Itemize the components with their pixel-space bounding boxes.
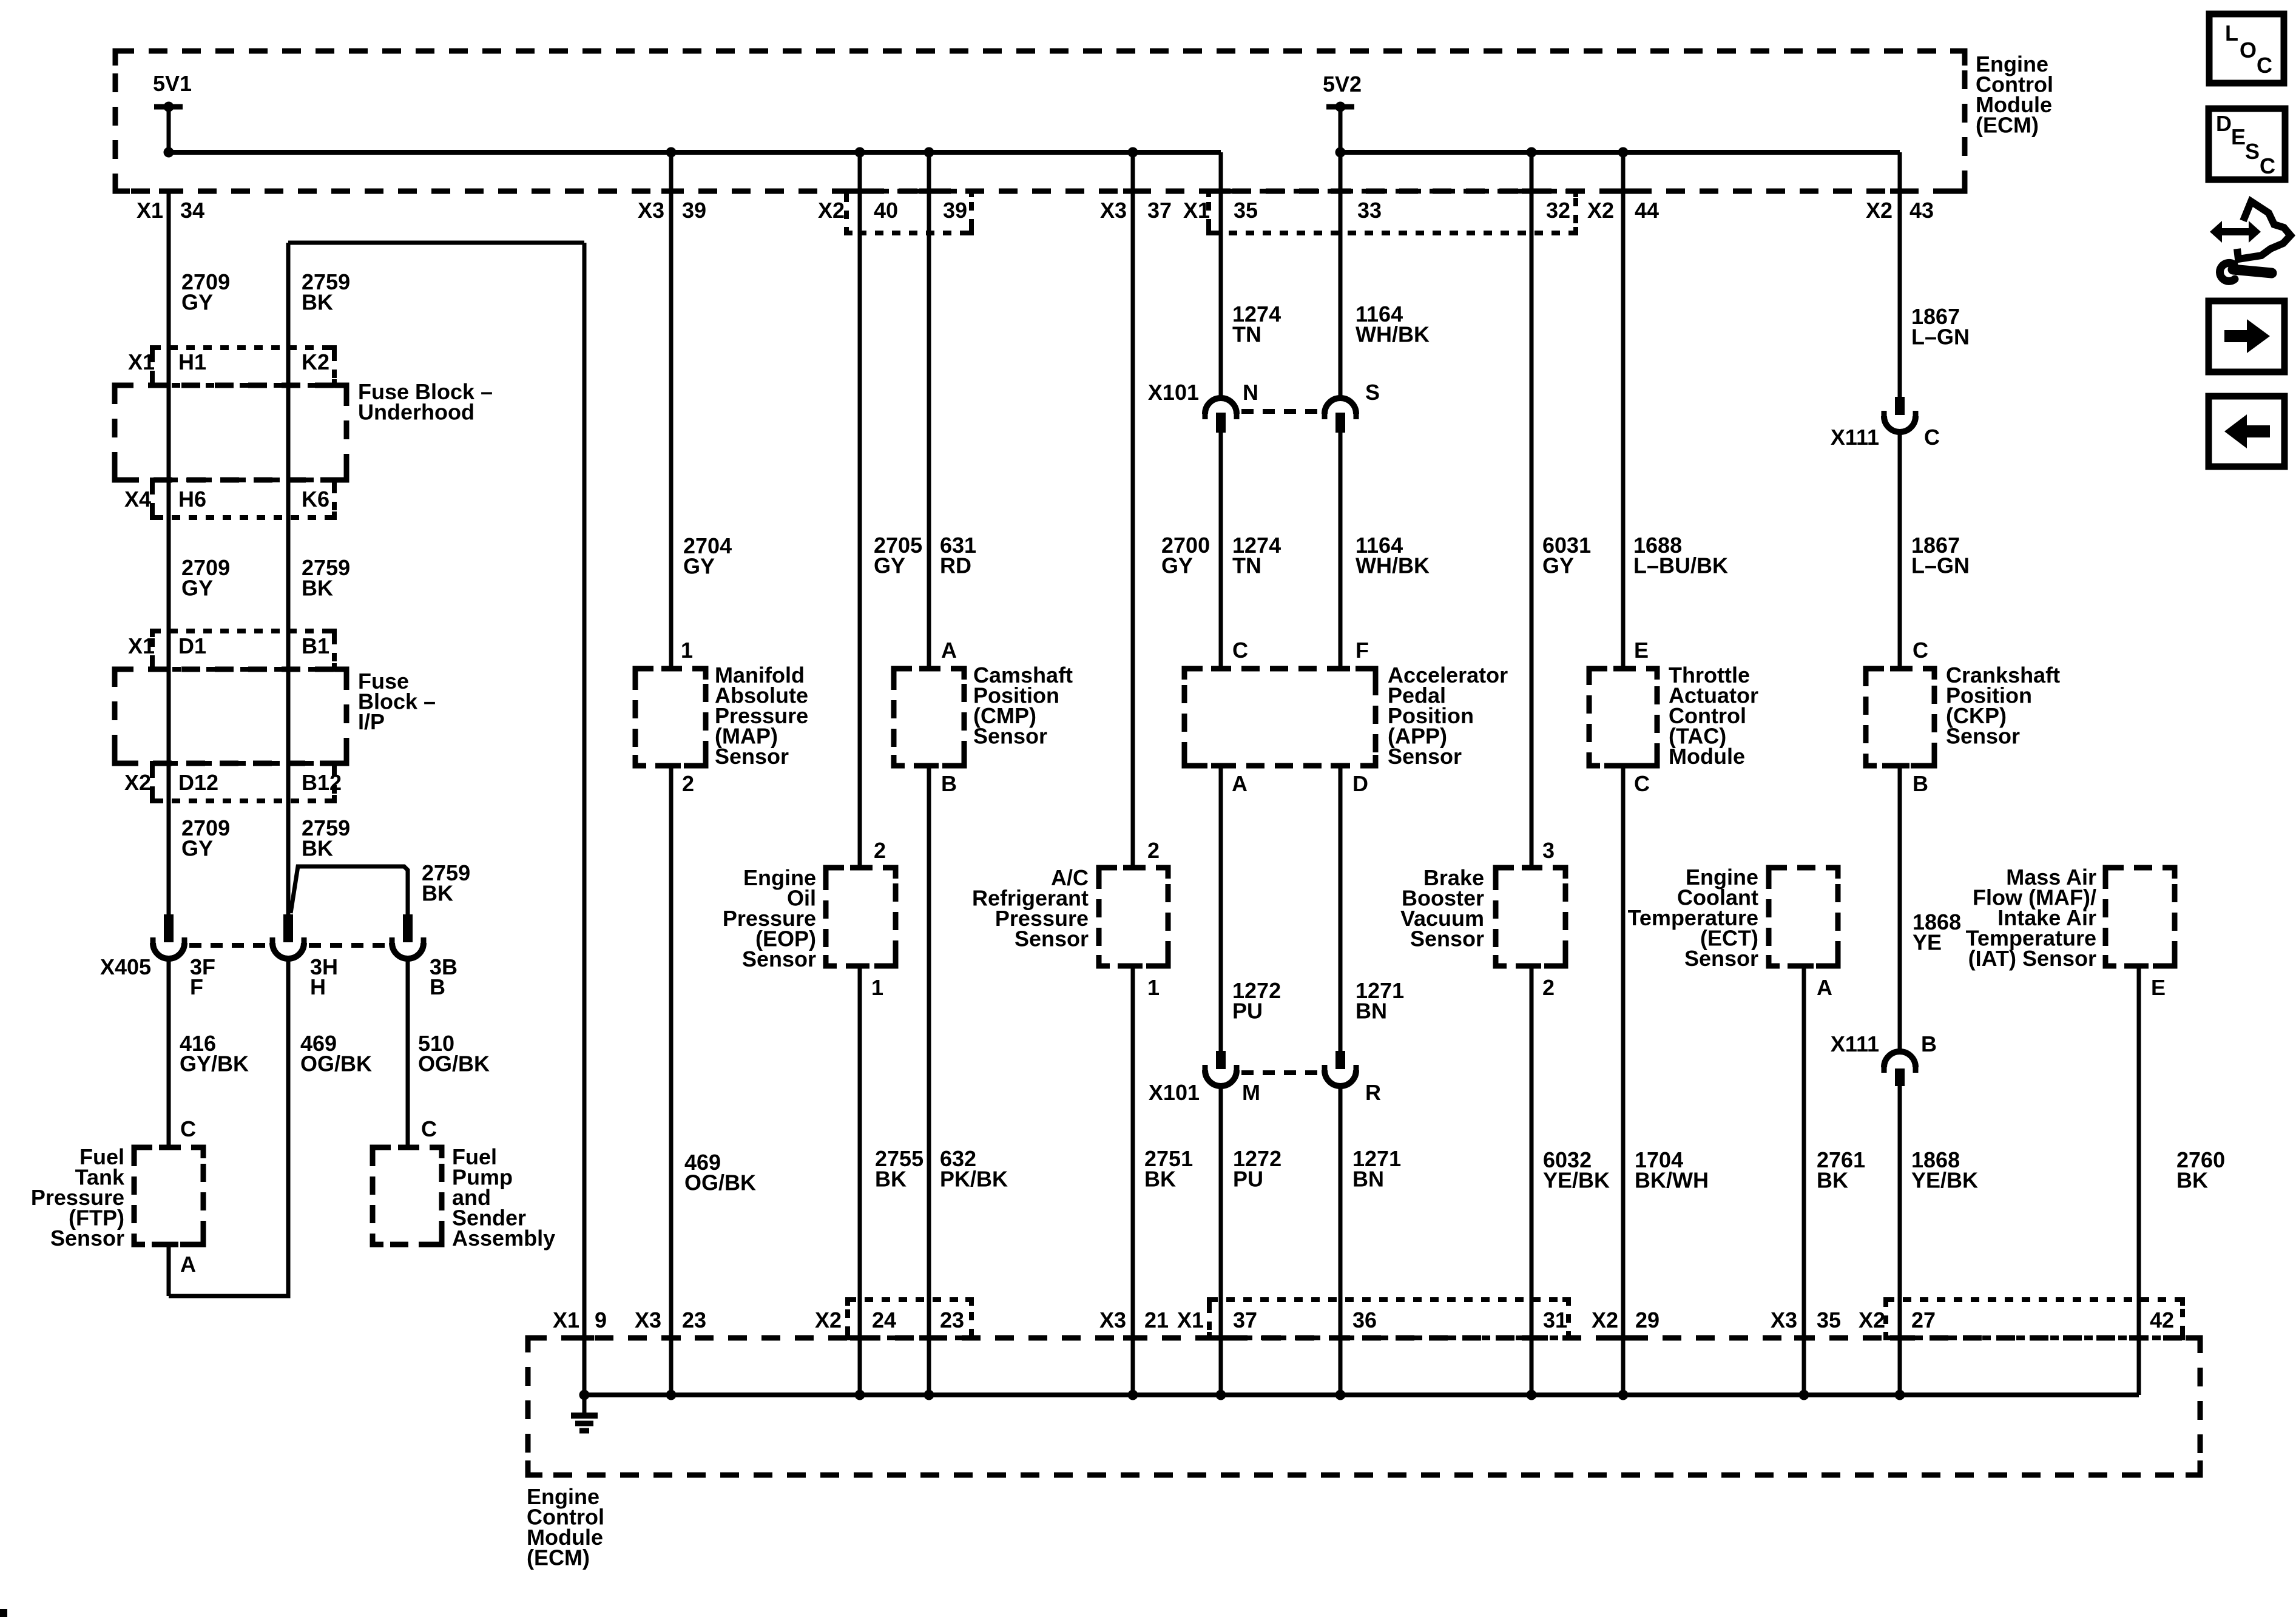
svg-text:GY: GY bbox=[874, 553, 905, 578]
connector X405 3F cup bbox=[153, 937, 184, 959]
svg-text:YE: YE bbox=[1913, 930, 1942, 955]
svg-text:D1: D1 bbox=[178, 633, 206, 658]
MAP sensor label bbox=[715, 663, 808, 769]
5V1 reference terminal bbox=[153, 71, 192, 112]
svg-text:BK: BK bbox=[2176, 1168, 2208, 1193]
connector X111 B cup bbox=[1884, 1052, 1916, 1073]
ground symbol bbox=[571, 1395, 598, 1431]
wire 2761 BK (ECT to ECM) bbox=[1802, 966, 1806, 1395]
CMP sensor pin bars bbox=[919, 669, 939, 766]
FTP sensor label bbox=[31, 1144, 125, 1251]
svg-text:K6: K6 bbox=[302, 487, 329, 511]
label pin 1 MAP bbox=[681, 638, 693, 663]
label pin M bbox=[1242, 1080, 1260, 1105]
label 2759 BK b bbox=[302, 555, 350, 601]
svg-text:C: C bbox=[1924, 425, 1940, 450]
svg-text:X4: X4 bbox=[124, 487, 151, 511]
svg-text:TN: TN bbox=[1232, 553, 1261, 578]
svg-text:M: M bbox=[1242, 1080, 1260, 1105]
svg-text:X3: X3 bbox=[638, 198, 664, 223]
APP sensor label bbox=[1388, 663, 1508, 769]
ECM2 pin labels X1 9 X3 23 bbox=[553, 1308, 706, 1332]
label 469 OG/BK MAP bbox=[684, 1150, 756, 1195]
svg-text:N: N bbox=[1243, 380, 1258, 405]
svg-text:X111: X111 bbox=[1831, 1031, 1879, 1056]
wire 631 RD (39 to CMP) bbox=[927, 152, 931, 669]
label 631 RD bbox=[940, 533, 976, 578]
svg-text:C: C bbox=[1634, 771, 1650, 796]
svg-text:H: H bbox=[310, 974, 326, 999]
label 1868 YE/BK bbox=[1911, 1147, 1978, 1193]
label pin 1 EOP bbox=[871, 975, 883, 1000]
5V2 bus bbox=[1340, 150, 1900, 155]
wire 6032 YE/BK (BB to ECM) bbox=[1530, 966, 1534, 1395]
label pin S bbox=[1365, 380, 1380, 405]
svg-text:23: 23 bbox=[940, 1308, 964, 1332]
svg-text:OG/BK: OG/BK bbox=[684, 1170, 756, 1195]
label pin B CKP bbox=[1913, 771, 1928, 796]
label X111 C bbox=[1831, 425, 1940, 450]
connector X405 3B cup bbox=[392, 937, 424, 959]
svg-text:A: A bbox=[1817, 975, 1832, 1000]
svg-text:S: S bbox=[2245, 139, 2260, 164]
svg-text:X111: X111 bbox=[1831, 425, 1879, 450]
svg-text:B: B bbox=[1913, 771, 1928, 796]
EOP sensor label bbox=[723, 865, 816, 971]
ECM1 pin crossing bars bbox=[159, 189, 1909, 194]
label pin 2 ACR bbox=[1147, 838, 1160, 863]
svg-text:X3: X3 bbox=[1100, 198, 1127, 223]
svg-text:37: 37 bbox=[1147, 198, 1172, 223]
svg-text:L–GN: L–GN bbox=[1911, 553, 1970, 578]
ECM1 pin labels X3 39 bbox=[638, 198, 706, 223]
ECT sensor dashed box bbox=[1769, 868, 1838, 966]
MAF IAT sensor dashed box bbox=[2105, 868, 2175, 966]
svg-text:A: A bbox=[1232, 771, 1248, 796]
svg-text:X101: X101 bbox=[1149, 1080, 1200, 1105]
svg-text:B: B bbox=[1921, 1031, 1937, 1056]
ECM bottom dashed box bbox=[528, 1338, 2200, 1475]
svg-text:X2: X2 bbox=[1866, 198, 1893, 223]
svg-text:BK: BK bbox=[302, 290, 333, 315]
wire 6031 GY (32 to BB) bbox=[1530, 152, 1534, 868]
svg-text:L–GN: L–GN bbox=[1911, 325, 1970, 349]
svg-text:D: D bbox=[1352, 771, 1368, 796]
CKP sensor dashed box bbox=[1866, 669, 1934, 766]
wire 2759 BK (to fuse block) bbox=[286, 243, 291, 914]
svg-text:BN: BN bbox=[1352, 1167, 1384, 1192]
svg-text:S: S bbox=[1365, 380, 1380, 405]
fuse block IP dashed box bbox=[115, 669, 346, 763]
label pin A CMP bbox=[941, 638, 957, 663]
svg-text:BK: BK bbox=[1144, 1167, 1176, 1192]
svg-text:C: C bbox=[2260, 154, 2275, 178]
svg-text:1: 1 bbox=[681, 638, 693, 663]
svg-text:X2: X2 bbox=[818, 198, 845, 223]
ECM1 pin dotted box X2 40/39 bbox=[846, 191, 971, 233]
svg-text:BK: BK bbox=[422, 881, 453, 906]
AC refrigerant pressure sensor dashed box bbox=[1099, 868, 1168, 966]
svg-text:C: C bbox=[421, 1116, 437, 1141]
connector X101 M cup bbox=[1205, 1065, 1237, 1086]
CMP sensor dashed box bbox=[894, 669, 964, 766]
svg-text:X1: X1 bbox=[137, 198, 163, 223]
svg-text:21: 21 bbox=[1144, 1308, 1169, 1332]
svg-text:YE/BK: YE/BK bbox=[1911, 1168, 1978, 1193]
label 510 OG/BK bbox=[418, 1031, 490, 1076]
connector X405 3H male terminal bbox=[283, 914, 293, 942]
5V2 reference terminal bbox=[1323, 72, 1362, 112]
wire 1271 BN (APP D down) bbox=[1339, 766, 1343, 1051]
svg-text:(ECM): (ECM) bbox=[1976, 113, 2039, 138]
AC refrigerant pressure sensor label bbox=[972, 865, 1089, 951]
APP sensor pin bars bbox=[1211, 669, 1350, 766]
label 2760 BK bbox=[2176, 1147, 2225, 1193]
svg-text:F: F bbox=[1356, 638, 1369, 663]
ECM2 pin dotted box X2 24/23 bbox=[848, 1300, 971, 1338]
ECT sensor label bbox=[1628, 865, 1758, 971]
svg-text:2: 2 bbox=[874, 838, 886, 863]
ECM2 pin dotted box X2 27/42 bbox=[1886, 1300, 2183, 1338]
wire 1867 L-GN upper bbox=[1898, 152, 1902, 397]
svg-text:5V1: 5V1 bbox=[153, 71, 192, 96]
svg-text:TN: TN bbox=[1232, 322, 1261, 347]
svg-text:Underhood: Underhood bbox=[358, 400, 474, 425]
svg-text:X101: X101 bbox=[1148, 380, 1199, 405]
svg-text:39: 39 bbox=[682, 198, 706, 223]
ECM bottom label bbox=[527, 1484, 604, 1570]
connector X405 dashes bbox=[189, 943, 387, 948]
svg-text:E: E bbox=[1634, 638, 1649, 663]
label 1272 PU lower bbox=[1233, 1146, 1281, 1192]
svg-text:BK: BK bbox=[302, 836, 333, 861]
label pin C fuel pump bbox=[421, 1116, 437, 1141]
svg-text:D12: D12 bbox=[178, 770, 218, 795]
connector X101 upper dashes bbox=[1241, 409, 1320, 414]
label 2709 GY a bbox=[181, 269, 230, 315]
AC refrigerant pressure sensor pin bars bbox=[1123, 868, 1143, 966]
ECM top label bbox=[1976, 52, 2053, 138]
wire 1867 L-GN to CKP bbox=[1898, 430, 1902, 669]
svg-text:9: 9 bbox=[595, 1308, 607, 1332]
label 2709 GY b bbox=[181, 555, 230, 601]
MAP sensor dashed box bbox=[635, 669, 706, 766]
svg-text:23: 23 bbox=[682, 1308, 706, 1332]
svg-text:Sensor: Sensor bbox=[1015, 927, 1089, 951]
ECT sensor pin bar bbox=[1794, 964, 1814, 969]
wire 510 OG/BK bbox=[406, 957, 410, 1147]
svg-text:OG/BK: OG/BK bbox=[418, 1052, 490, 1076]
connector X111 C cup bbox=[1884, 411, 1916, 432]
wire FTP A stub bbox=[167, 1244, 171, 1296]
svg-text:37: 37 bbox=[1233, 1308, 1257, 1332]
fuel pump pin C bar bbox=[398, 1145, 417, 1150]
label X101 lower bbox=[1149, 1080, 1200, 1105]
wire 1272 PU to ECM bbox=[1219, 1084, 1223, 1395]
connector X111 B male terminal bbox=[1895, 1068, 1905, 1086]
label 1868 YE bbox=[1913, 910, 1961, 955]
svg-text:PU: PU bbox=[1233, 1167, 1263, 1192]
EOP sensor dashed box bbox=[826, 868, 896, 966]
svg-text:Sensor: Sensor bbox=[1410, 927, 1484, 951]
wire 5V1 drop bbox=[167, 107, 171, 152]
svg-text:B: B bbox=[941, 771, 957, 796]
svg-text:D: D bbox=[2216, 111, 2232, 136]
wire 1868 YE/BK (X111 B to ECM) bbox=[1898, 1086, 1902, 1395]
svg-text:31: 31 bbox=[1543, 1308, 1567, 1332]
fuse block IP pins X2 D12 B12 bbox=[124, 770, 342, 795]
svg-text:BN: BN bbox=[1356, 999, 1387, 1024]
ECM1 pin labels X2 40 39 bbox=[818, 198, 967, 223]
svg-text:35: 35 bbox=[1234, 198, 1258, 223]
svg-text:GY: GY bbox=[1161, 553, 1193, 578]
connector X101 M male terminal bbox=[1216, 1051, 1226, 1069]
svg-text:PK/BK: PK/BK bbox=[940, 1167, 1008, 1192]
svg-text:C: C bbox=[1913, 638, 1928, 663]
svg-text:X405: X405 bbox=[100, 954, 151, 979]
icon back arrow box bbox=[2209, 396, 2284, 467]
MAP sensor pin bars bbox=[661, 669, 681, 766]
FTP sensor pin C bar bbox=[159, 1145, 178, 1150]
label pin D APP bbox=[1352, 771, 1368, 796]
svg-text:X2: X2 bbox=[815, 1308, 842, 1332]
label pin C APP bbox=[1232, 638, 1248, 663]
wire 2755 BK (EOP to ECM) bbox=[858, 966, 862, 1395]
label 6031 GY bbox=[1542, 533, 1591, 578]
wire 1164 WH/BK to APP F bbox=[1339, 433, 1343, 669]
icon DESC box bbox=[2209, 109, 2285, 180]
ECM1 pin dotted box X1 35/33/32 bbox=[1209, 191, 1576, 233]
wire MAP low 469 OG/BK bbox=[669, 766, 674, 1395]
icon wiring repair (arrow and wrench) bbox=[2210, 201, 2291, 281]
ECM1 pin labels 32 X2 44 bbox=[1546, 198, 1659, 223]
label pin C FTP bbox=[180, 1116, 196, 1141]
svg-text:Sensor: Sensor bbox=[1388, 744, 1462, 769]
label 1867 L-GN upper bbox=[1911, 304, 1970, 349]
svg-text:2: 2 bbox=[1542, 975, 1555, 1000]
label 1867 L-GN lower bbox=[1911, 533, 1970, 578]
ECM1 pin labels X1 34 bbox=[137, 198, 204, 223]
svg-text:44: 44 bbox=[1635, 198, 1659, 223]
svg-text:X3: X3 bbox=[1771, 1308, 1797, 1332]
fuse block IP pin box bottom bbox=[152, 763, 334, 801]
svg-text:X3: X3 bbox=[1099, 1308, 1126, 1332]
svg-text:Sensor: Sensor bbox=[742, 947, 816, 971]
label 2759 BK a bbox=[302, 269, 350, 315]
label 2700 GY bbox=[1161, 533, 1210, 578]
label pin 2 BB bbox=[1542, 975, 1555, 1000]
label 632 PK/BK bbox=[940, 1146, 1008, 1192]
wire 1704 BK/WH (TAC to ECM) bbox=[1621, 766, 1626, 1395]
label X405 bbox=[100, 954, 151, 979]
svg-text:C: C bbox=[2257, 53, 2272, 78]
wire 416 GY/BK bbox=[167, 957, 171, 1147]
label 2751 BK bbox=[1144, 1146, 1193, 1192]
fuse block underhood pin box bottom bbox=[152, 480, 334, 518]
FTP sensor pin A bar bbox=[159, 1242, 178, 1247]
svg-text:27: 27 bbox=[1911, 1308, 1936, 1332]
svg-text:Sensor: Sensor bbox=[973, 724, 1047, 749]
connector X111 C male terminal bbox=[1895, 397, 1905, 415]
wire 2759 BK branch to 3B bbox=[291, 866, 408, 914]
ECM2 pin labels X3 21 X1 37 36 bbox=[1099, 1308, 1377, 1332]
fuse block underhood pins X4 H6 K6 bbox=[124, 487, 329, 511]
svg-text:E: E bbox=[2151, 975, 2166, 1000]
wire 2751 BK (ACR to ECM) bbox=[1131, 966, 1135, 1395]
svg-text:36: 36 bbox=[1352, 1308, 1377, 1332]
wire 2700 GY (X3-37 to ACR) bbox=[1131, 152, 1135, 868]
svg-text:1: 1 bbox=[1147, 975, 1160, 1000]
label 1704 BK/WH bbox=[1635, 1147, 1709, 1193]
EOP sensor pin bars bbox=[850, 868, 869, 966]
svg-text:34: 34 bbox=[180, 198, 204, 223]
label pin 2 EOP bbox=[874, 838, 886, 863]
icon LOC box bbox=[2209, 14, 2284, 83]
svg-text:2: 2 bbox=[1147, 838, 1160, 863]
svg-text:1: 1 bbox=[871, 975, 883, 1000]
svg-text:42: 42 bbox=[2150, 1308, 2174, 1332]
svg-text:BK: BK bbox=[1817, 1168, 1848, 1193]
ECM2 bus junction dots bbox=[579, 1390, 1905, 1400]
svg-text:BK/WH: BK/WH bbox=[1635, 1168, 1709, 1193]
FTP sensor dashed box bbox=[134, 1147, 203, 1244]
brake booster vacuum sensor label bbox=[1400, 865, 1484, 951]
fuse block underhood pin box top bbox=[152, 348, 334, 385]
TAC module pin bars bbox=[1613, 669, 1633, 766]
svg-text:Sensor: Sensor bbox=[715, 744, 789, 769]
svg-text:24: 24 bbox=[872, 1308, 896, 1332]
ECM1 pin labels X2 43 bbox=[1866, 198, 1934, 223]
APP sensor dashed box bbox=[1184, 669, 1376, 766]
svg-text:C: C bbox=[180, 1116, 196, 1141]
connector X101 N cup bbox=[1205, 398, 1237, 419]
svg-text:Sensor: Sensor bbox=[50, 1226, 124, 1251]
label pin C TAC bbox=[1634, 771, 1650, 796]
svg-text:H6: H6 bbox=[178, 487, 206, 511]
connector X101 lower dashes bbox=[1241, 1070, 1320, 1075]
svg-text:Sensor: Sensor bbox=[1684, 946, 1758, 971]
svg-text:GY: GY bbox=[181, 290, 213, 315]
label X111 B bbox=[1831, 1031, 1937, 1056]
label 2755 BK bbox=[875, 1146, 923, 1192]
connector X405 3H cup bbox=[272, 937, 304, 959]
svg-text:(IAT) Sensor: (IAT) Sensor bbox=[1968, 946, 2096, 971]
svg-text:32: 32 bbox=[1546, 198, 1570, 223]
label 2705 GY bbox=[874, 533, 922, 578]
svg-text:B: B bbox=[430, 974, 445, 999]
connector X101 S male terminal bbox=[1335, 413, 1345, 433]
ECM1 pin label 33 bbox=[1357, 198, 1382, 223]
fuse block underhood label bbox=[358, 379, 493, 425]
svg-text:35: 35 bbox=[1817, 1308, 1841, 1332]
MAF IAT sensor label bbox=[1966, 865, 2096, 971]
svg-text:O: O bbox=[2240, 38, 2257, 62]
svg-text:YE/BK: YE/BK bbox=[1543, 1168, 1610, 1193]
svg-text:X1: X1 bbox=[128, 349, 155, 374]
svg-text:X1: X1 bbox=[128, 633, 155, 658]
svg-text:A: A bbox=[180, 1252, 196, 1277]
wire 469 OG/BK (3H to FTP A loop) bbox=[169, 957, 288, 1296]
connector X101 R cup bbox=[1325, 1065, 1356, 1086]
CMP sensor label bbox=[973, 663, 1073, 749]
label pin A ECT bbox=[1817, 975, 1832, 1000]
label 469 OG/BK bbox=[300, 1031, 372, 1076]
wire 1868 YE (CKP B to X111 B) bbox=[1898, 766, 1902, 1055]
label 1688 L-BU/BK bbox=[1633, 533, 1728, 578]
label pin 3 BB bbox=[1542, 838, 1555, 863]
wire 1274 TN to APP C bbox=[1219, 433, 1223, 669]
svg-text:E: E bbox=[2231, 124, 2246, 149]
label 1164 WH/BK upper bbox=[1356, 302, 1430, 347]
label 3B B bbox=[430, 954, 458, 999]
svg-text:WH/BK: WH/BK bbox=[1356, 322, 1430, 347]
svg-text:WH/BK: WH/BK bbox=[1356, 553, 1430, 578]
connector X101 S cup bbox=[1325, 398, 1356, 419]
ECM top dashed box (Engine Control Module) bbox=[115, 51, 1965, 191]
wire 2760 BK (MAF to ECM) bbox=[2137, 966, 2141, 1395]
svg-text:L–BU/BK: L–BU/BK bbox=[1633, 553, 1728, 578]
ECM2 pin labels X3 35 X2 27 42 bbox=[1771, 1308, 2174, 1332]
fuel pump dashed box bbox=[373, 1147, 442, 1244]
label 416 GY/BK bbox=[180, 1031, 249, 1076]
svg-text:39: 39 bbox=[943, 198, 967, 223]
CKP sensor label bbox=[1946, 663, 2060, 749]
junction dots on 5V1 bus bbox=[164, 147, 1138, 158]
ECM2 pin dotted box X1 37/36/31 bbox=[1209, 1300, 1568, 1338]
wire 632 PK/BK (CMP to ECM) bbox=[927, 766, 931, 1395]
fuel pump label bbox=[452, 1144, 555, 1251]
svg-text:GY/BK: GY/BK bbox=[180, 1052, 249, 1076]
svg-text:5V2: 5V2 bbox=[1323, 72, 1362, 96]
fuse block IP pins X1 D1 B1 bbox=[128, 633, 329, 658]
wire 1688 L-BU/BK (X2-44 to TAC) bbox=[1621, 152, 1626, 669]
svg-text:X1: X1 bbox=[553, 1308, 579, 1332]
svg-text:(ECM): (ECM) bbox=[527, 1545, 590, 1570]
label X101 upper bbox=[1148, 380, 1199, 405]
connector X101 R male terminal bbox=[1335, 1051, 1345, 1069]
svg-text:RD: RD bbox=[940, 553, 971, 578]
label 1164 WH/BK lower bbox=[1356, 533, 1430, 578]
ECM2 ground bus bbox=[584, 1393, 2139, 1397]
label pin 2 MAP bbox=[682, 771, 694, 796]
ECM2 pin labels 31 X2 29 bbox=[1543, 1308, 1660, 1332]
page artifact mark bottom-left bbox=[0, 1609, 7, 1617]
label pin E MAF bbox=[2151, 975, 2166, 1000]
svg-text:I/P: I/P bbox=[358, 709, 385, 734]
label 1274 TN lower bbox=[1232, 533, 1281, 578]
svg-text:40: 40 bbox=[874, 198, 898, 223]
wire 2705 GY (X2-40 to EOP) bbox=[858, 152, 862, 868]
label pin 1 ACR bbox=[1147, 975, 1160, 1000]
svg-text:X1: X1 bbox=[1177, 1308, 1204, 1332]
label pin R bbox=[1365, 1080, 1381, 1105]
wire 1164 WH/BK upper bbox=[1339, 152, 1343, 397]
ECM2 pin labels X2 24 23 bbox=[815, 1308, 964, 1332]
svg-text:F: F bbox=[190, 974, 203, 999]
wire 5V2 drop bbox=[1339, 107, 1343, 152]
svg-text:GY: GY bbox=[181, 836, 213, 861]
svg-text:PU: PU bbox=[1232, 999, 1263, 1024]
label 2704 GY bbox=[683, 533, 732, 579]
wire 1272 PU (APP A down) bbox=[1219, 766, 1223, 1051]
svg-text:X2: X2 bbox=[1587, 198, 1614, 223]
svg-text:2: 2 bbox=[682, 771, 694, 796]
wire 1271 BN to ECM bbox=[1339, 1084, 1343, 1395]
svg-text:X2: X2 bbox=[124, 770, 151, 795]
CKP sensor pin bars bbox=[1890, 669, 1909, 766]
wire 2709 GY (X1-34 to FTP) bbox=[167, 191, 171, 914]
svg-text:B1: B1 bbox=[302, 633, 329, 658]
